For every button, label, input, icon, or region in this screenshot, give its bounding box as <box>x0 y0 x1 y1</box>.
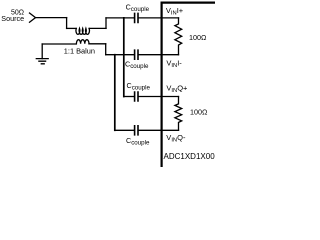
wire secondary to step down <box>89 43 106 45</box>
wire primary to step up <box>89 27 106 29</box>
svg-text:100Ω: 100Ω <box>190 108 208 117</box>
svg-text:VINQ+: VINQ+ <box>166 84 188 94</box>
wire VinQ+ inside <box>161 96 179 98</box>
wire plus bus <box>123 18 125 97</box>
wire I- row to cap <box>106 54 134 56</box>
capacitor C2 Ccouple I- <box>135 50 138 59</box>
transformer T1 primary winding <box>76 28 89 34</box>
wire Q- row to cap <box>115 129 134 131</box>
wire I+ row to cap <box>106 17 134 19</box>
wire minus bus <box>114 55 116 131</box>
wire source to step <box>36 17 67 19</box>
svg-text:1:1 Balun: 1:1 Balun <box>64 47 95 56</box>
capacitor C3 Ccouple Q+ <box>135 92 138 101</box>
svg-text:Source: Source <box>1 14 24 23</box>
resistor R2 100 ohm <box>175 97 182 131</box>
wire VinQ- inside <box>161 129 179 131</box>
svg-text:100Ω: 100Ω <box>189 33 207 42</box>
source chevron <box>30 13 36 22</box>
wire cap to ADC VinI+ <box>139 17 161 19</box>
wire cap to ADC VinQ- <box>139 129 161 131</box>
wire to primary winding <box>67 27 77 29</box>
wire VinI- inside <box>161 54 179 56</box>
ground <box>36 59 48 64</box>
transformer T1 secondary winding <box>76 40 89 44</box>
wire Q+ row to cap <box>124 96 134 98</box>
wire step down to primary <box>66 18 68 29</box>
resistor R1 100 ohm <box>175 18 182 55</box>
capacitor C1 Ccouple I+ <box>135 13 138 22</box>
wire cap to ADC VinQ+ <box>139 96 161 98</box>
wire cap to ADC VinI- <box>139 54 161 56</box>
ADC box U1 <box>162 3 215 167</box>
wire secondary left lead <box>42 43 76 45</box>
wire VinI+ inside <box>161 17 179 19</box>
wire step down minus <box>105 44 107 55</box>
wire ground stem <box>41 44 43 59</box>
svg-text:ADC1XD1X00: ADC1XD1X00 <box>164 152 216 161</box>
capacitor C4 Ccouple Q- <box>135 126 138 135</box>
wire step up <box>105 18 107 29</box>
